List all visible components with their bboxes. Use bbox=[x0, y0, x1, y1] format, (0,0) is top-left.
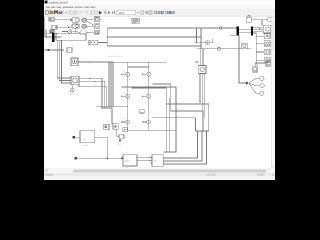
svg-text:b: b bbox=[72, 44, 73, 47]
meter block R0 bbox=[264, 34, 270, 39]
scope block V3 bbox=[266, 60, 272, 66]
svg-text:g: g bbox=[124, 70, 125, 72]
wire measurement feed bbox=[197, 45, 251, 50]
svg-text:v+-: v+- bbox=[177, 101, 180, 104]
svg-text:modified_Sketch*: modified_Sketch* bbox=[49, 1, 68, 4]
bridge top bus bbox=[113, 61, 166, 63]
title bar bbox=[44, 0, 275, 5]
three-phase line A bbox=[107, 27, 236, 29]
inport IP2 bbox=[74, 157, 123, 159]
status bar bbox=[44, 173, 275, 176]
sum block SUM1 bbox=[206, 41, 210, 45]
toolbar step button bbox=[108, 11, 110, 14]
svg-text:g: g bbox=[145, 92, 146, 94]
horizontal scrollbar bbox=[44, 168, 275, 173]
wire vertical v3 bbox=[62, 40, 72, 83]
wire MX1 output bbox=[98, 42, 108, 44]
winding link bottom bbox=[239, 31, 251, 33]
transformer winding W2 bbox=[251, 26, 253, 35]
toolbar print button bbox=[59, 11, 63, 15]
transformer winding W1 bbox=[237, 26, 239, 35]
DC source bar B1 bbox=[52, 33, 54, 42]
transistor Q6 bbox=[142, 118, 151, 124]
measurement tap 3 bbox=[153, 118, 196, 131]
toolbar paste button bbox=[74, 11, 77, 15]
constant block K1 bbox=[52, 25, 57, 29]
wire jog bbox=[101, 108, 112, 124]
wire bus top bbox=[46, 32, 57, 34]
wire W2 to L1 d bbox=[253, 32, 256, 34]
wire V2 top bus bbox=[255, 62, 266, 64]
wire G to H b bbox=[137, 160, 152, 162]
toolbar step-to-end button bbox=[112, 11, 115, 14]
svg-text:10.0: 10.0 bbox=[118, 11, 124, 15]
left edge wire bbox=[44, 18, 46, 38]
toolbar bbox=[44, 9, 275, 16]
wire fan b bbox=[249, 83, 261, 86]
svg-text:g: g bbox=[145, 118, 146, 120]
wire K1 to SC2 bbox=[57, 27, 72, 29]
svg-text:th: th bbox=[125, 136, 127, 139]
winding link top bbox=[239, 28, 251, 30]
toolbar scope button bbox=[149, 11, 152, 14]
wire SC1 to gauge M1 bbox=[87, 18, 95, 21]
machine block F1 bbox=[195, 62, 206, 74]
transistor Q3 bbox=[121, 92, 130, 98]
wire out of SUM1 bbox=[209, 39, 212, 43]
toolbar link button bbox=[90, 11, 93, 14]
wire bottom join bbox=[96, 106, 128, 108]
svg-text:pwm: pwm bbox=[125, 159, 130, 162]
wire right rail bbox=[170, 87, 176, 152]
wire F1 drop a bbox=[199, 74, 201, 104]
three-phase line B bbox=[107, 36, 201, 38]
measurement box bottom bbox=[196, 113, 209, 131]
toolbar debug button bbox=[158, 11, 161, 14]
toolbar library button bbox=[161, 11, 164, 14]
toolbar redo button bbox=[85, 12, 88, 14]
lamp block LP2 bbox=[260, 84, 266, 88]
svg-text:g: g bbox=[124, 118, 125, 120]
meter block R3 bbox=[264, 58, 270, 63]
transistor Q5 bbox=[121, 118, 130, 124]
toolbar separator 2 bbox=[77, 10, 79, 14]
pwm block G1b bbox=[121, 155, 137, 170]
svg-text:v: v bbox=[218, 25, 219, 27]
svg-text:v+-: v+- bbox=[177, 115, 180, 118]
wire into SUM1 bbox=[195, 28, 206, 43]
wire S1 out bbox=[54, 18, 70, 20]
wire E2 output a bbox=[79, 78, 102, 108]
gate driver block H1 bbox=[151, 155, 164, 167]
phase wire drop c bbox=[112, 62, 114, 107]
wire W2 to L1 b bbox=[253, 28, 263, 30]
svg-text:p: p bbox=[140, 111, 141, 113]
wire stub left bbox=[45, 30, 47, 37]
svg-text:g: g bbox=[124, 92, 125, 94]
bridge bottom bus bbox=[128, 129, 176, 131]
wire fan c bbox=[249, 83, 260, 93]
svg-text:b: b bbox=[203, 36, 204, 39]
phase wire drop b bbox=[110, 62, 112, 107]
toolbar sim-time combo box bbox=[117, 10, 136, 15]
menu bar bbox=[44, 5, 275, 9]
wire fan feed bbox=[239, 35, 246, 83]
wire box to H a bbox=[163, 131, 197, 158]
toolbar dropdown arrow bbox=[137, 12, 139, 14]
controller block CB1 bbox=[80, 131, 95, 147]
wire G to H a bbox=[137, 157, 152, 159]
step source block S1 bbox=[49, 17, 54, 21]
svg-text:b: b bbox=[265, 85, 266, 88]
meter block V2 bbox=[253, 66, 258, 72]
svg-text:Ready: Ready bbox=[45, 174, 53, 177]
wire right drop bbox=[200, 28, 202, 49]
source block SB1 bbox=[246, 15, 251, 22]
wire V2 up bbox=[254, 63, 256, 66]
toolbar separator 1 bbox=[63, 10, 65, 14]
wire SC3 to gauge M3 bbox=[86, 31, 94, 33]
toolbar model-explorer button bbox=[165, 11, 168, 14]
wire lower left bbox=[45, 49, 64, 51]
measurement block MB2 bbox=[242, 43, 248, 48]
wire top link bbox=[251, 20, 262, 26]
wire F1 drop c bbox=[203, 74, 205, 118]
wire to meter R1 bbox=[256, 42, 264, 44]
svg-text:a: a bbox=[265, 79, 266, 81]
wire loop bbox=[56, 34, 86, 41]
transistor Q4 bbox=[142, 92, 151, 98]
toolbar camera button bbox=[145, 11, 148, 14]
wire box to H b bbox=[163, 131, 202, 161]
lamp block LP1 bbox=[260, 77, 266, 81]
svg-text:c: c bbox=[265, 93, 266, 95]
display blob SC3 bbox=[80, 31, 86, 35]
toolbar cut button bbox=[65, 11, 67, 14]
wire to meter R2 bbox=[256, 51, 264, 53]
goto tag block GT2 bbox=[113, 124, 118, 129]
wire vertical v1 bbox=[57, 40, 71, 78]
toolbar refresh button bbox=[141, 11, 144, 14]
load block L1 bbox=[263, 25, 271, 33]
wire A1 to SC3 bbox=[72, 31, 80, 34]
tag block TG1 bbox=[70, 19, 73, 21]
machine block E1 bbox=[71, 58, 78, 66]
wire node to A1 bbox=[62, 31, 68, 33]
constant block K2 bbox=[50, 30, 54, 33]
gain block A1 bbox=[68, 30, 72, 33]
wire to meter R3 bbox=[256, 59, 264, 61]
wire bus mid bbox=[45, 36, 62, 38]
wire CB1 to G bbox=[95, 137, 108, 158]
transistor Q2 bbox=[142, 70, 151, 76]
toolbar new-file button bbox=[45, 11, 48, 15]
measurement tap 1 bbox=[153, 84, 203, 131]
scope block SC2 bbox=[72, 24, 79, 28]
svg-text:Universal Bridge: Universal Bridge bbox=[107, 55, 123, 58]
toolbar save button bbox=[54, 11, 58, 15]
bridge column 1 bbox=[127, 62, 129, 130]
inport IP1 bbox=[72, 136, 80, 138]
port mark PM1 bbox=[119, 139, 121, 141]
input mark IM1 bbox=[259, 28, 261, 30]
terminator block TT1 bbox=[268, 18, 272, 22]
display ellipse DE1 bbox=[82, 18, 87, 22]
wire box to H c bbox=[163, 131, 206, 164]
wire SC1 to gauge M2 bbox=[87, 21, 95, 25]
wire bridge to H a bbox=[165, 104, 167, 152]
svg-text:g: g bbox=[145, 70, 146, 72]
canvas bbox=[45, 17, 271, 169]
wire W2 to L1 a bbox=[253, 26, 263, 28]
wire W2 to L1 c bbox=[253, 30, 263, 32]
machine block E2 bbox=[71, 76, 79, 84]
scope block SC1 bbox=[72, 18, 79, 23]
toolbar undo button bbox=[79, 12, 82, 14]
wire bridge to H b bbox=[163, 98, 169, 152]
wire TG1 to scope SC1 bbox=[71, 18, 73, 20]
svg-text:ode23tb: ode23tb bbox=[206, 174, 216, 177]
svg-text:th: th bbox=[122, 134, 124, 137]
toolbar stop button bbox=[104, 11, 107, 14]
node label NA bbox=[218, 25, 222, 29]
wire Q1-Q2 top link bbox=[128, 66, 149, 68]
powergui block PG1 bbox=[132, 18, 140, 23]
phase wire drop a bbox=[108, 62, 110, 107]
bridge mid bus bbox=[121, 86, 176, 88]
sum box SB5 bbox=[122, 128, 127, 137]
toolbar copy button bbox=[69, 11, 72, 15]
gauge block M1 bbox=[94, 17, 101, 22]
pulse block P1 bbox=[67, 48, 72, 52]
goto tag block GT1 bbox=[117, 129, 127, 146]
ground G1 bbox=[70, 85, 74, 93]
wire to meter R0 bbox=[256, 35, 264, 37]
wire fan a bbox=[249, 79, 260, 83]
gauge block M3 bbox=[94, 30, 99, 34]
toolbar target button bbox=[94, 11, 97, 14]
junction J1 bbox=[246, 82, 248, 85]
wire SC2 to gauge M2 bbox=[87, 25, 95, 27]
wire E1 output bbox=[78, 59, 113, 63]
wire F1 drop b bbox=[201, 74, 203, 111]
toolbar open button bbox=[50, 10, 54, 14]
svg-text:100%: 100% bbox=[257, 174, 264, 177]
meter block R1 bbox=[264, 41, 270, 46]
vertical scrollbar bbox=[271, 17, 275, 169]
svg-text:v+-: v+- bbox=[177, 108, 180, 111]
display ellipse DE2 bbox=[82, 24, 87, 28]
svg-text:c: c bbox=[203, 46, 204, 48]
toolbar help button bbox=[172, 11, 175, 14]
wire vertical v2 bbox=[59, 40, 71, 80]
measurement tap 2 bbox=[132, 88, 209, 131]
bridge column 2 bbox=[148, 62, 150, 130]
wire gnd return bbox=[79, 85, 107, 108]
goto tag block GT3 bbox=[104, 124, 109, 129]
toolbar workspace button bbox=[168, 11, 171, 14]
gate label block GL1 bbox=[140, 110, 144, 114]
svg-text:File Edit View Simulation: File Edit View Simulation Format Tools H… bbox=[46, 6, 96, 9]
bus left join bbox=[106, 28, 108, 46]
wire pair to machine bbox=[199, 49, 201, 66]
lamp block LP3 bbox=[260, 91, 266, 95]
toolbar build button bbox=[154, 11, 157, 14]
meter block R2 bbox=[264, 49, 270, 54]
svg-text:+: + bbox=[197, 113, 198, 116]
mux block MX1 bbox=[89, 40, 98, 44]
toolbar play button bbox=[99, 11, 102, 15]
transistor Q1 bbox=[121, 70, 130, 76]
app icon bbox=[45, 1, 48, 4]
wire top link2 bbox=[262, 19, 268, 21]
wire right column bbox=[255, 33, 257, 65]
wire E2 output b bbox=[79, 81, 105, 108]
wire W1 stub bbox=[230, 34, 237, 36]
window frame bbox=[44, 0, 275, 180]
three-phase line C bbox=[107, 45, 201, 47]
gauge block M2 bbox=[94, 24, 99, 29]
wire SC2 drop bbox=[75, 28, 77, 33]
